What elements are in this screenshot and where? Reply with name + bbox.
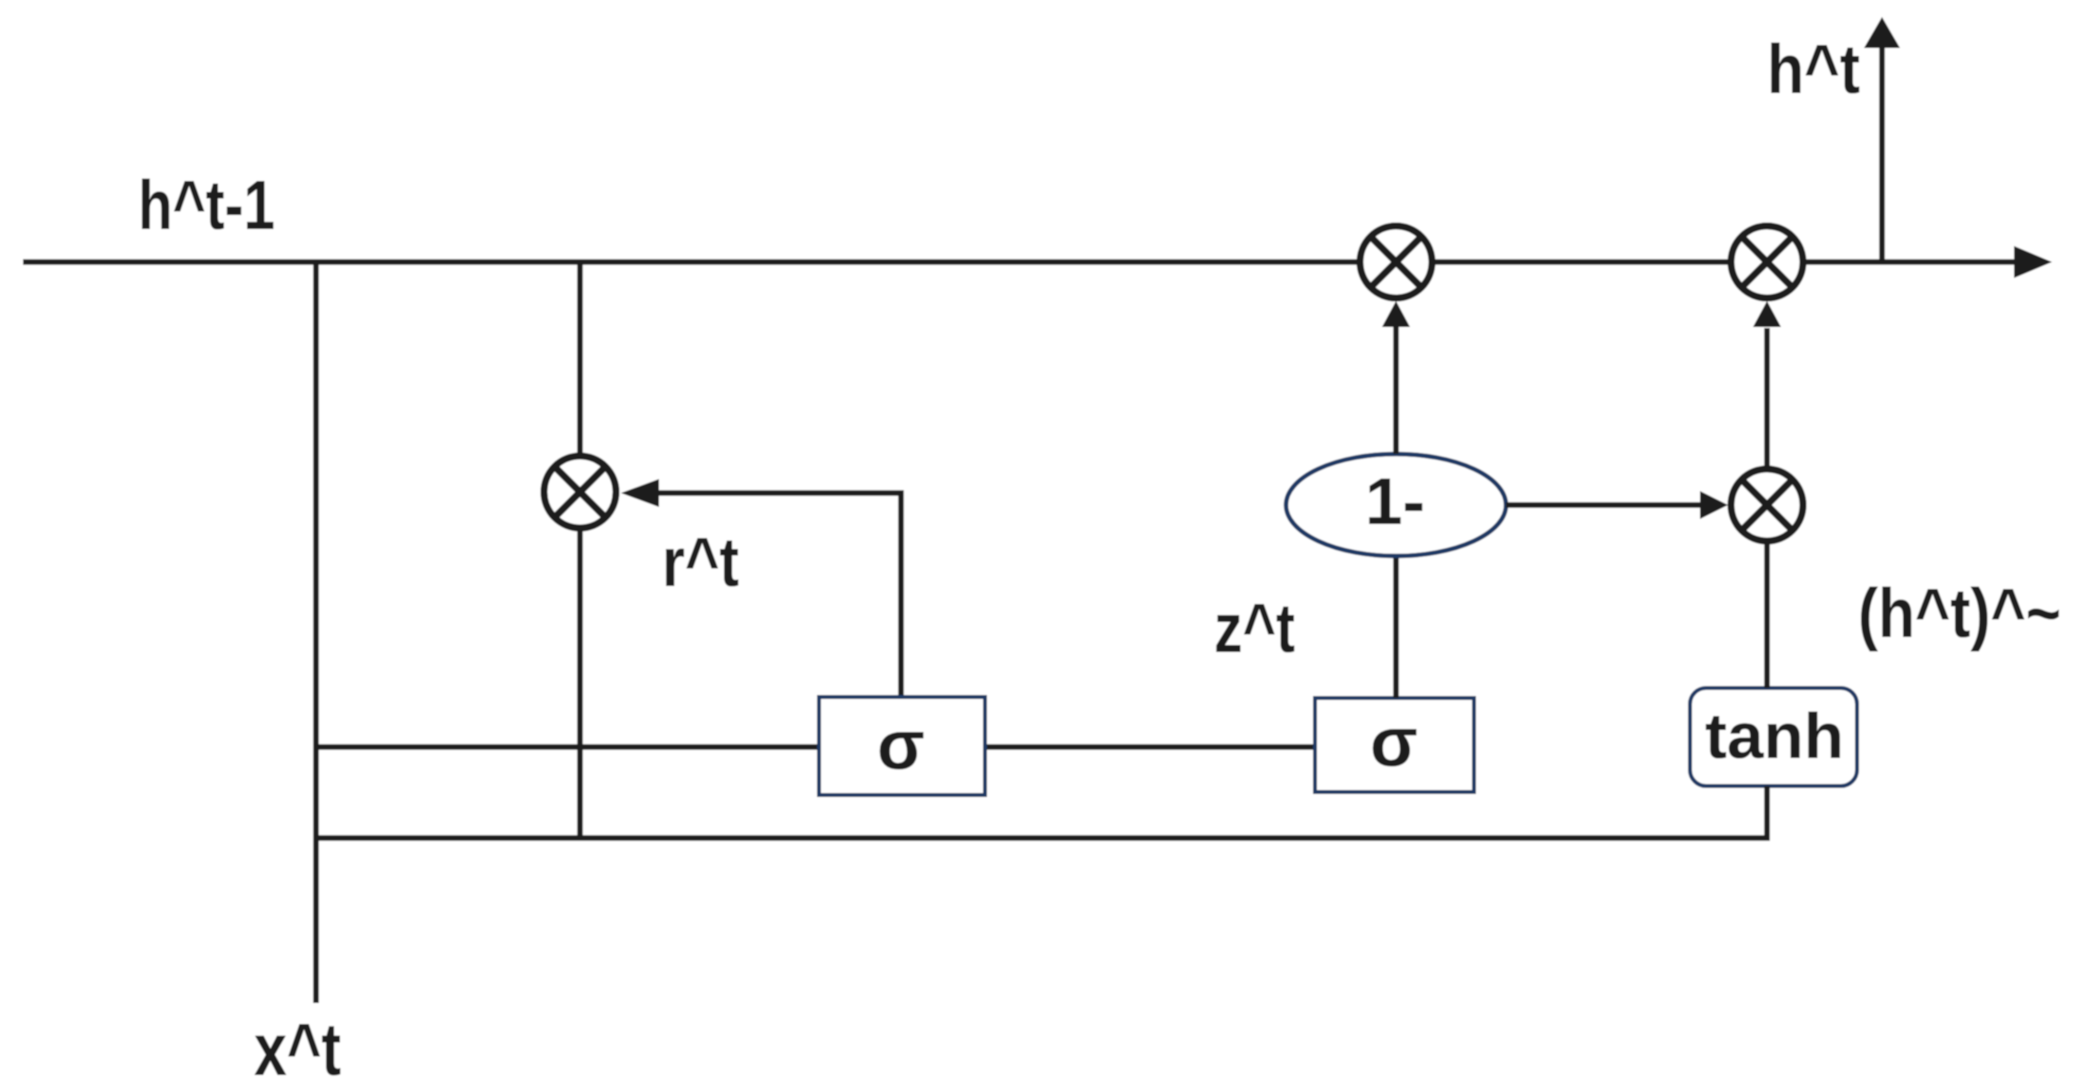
svg-text:1-: 1- bbox=[1365, 464, 1425, 538]
tanh gate U3 bbox=[1690, 688, 1857, 786]
wire: 1- ellipse right to candidate multiplier bbox=[1506, 502, 1703, 508]
sigma gate U2 bbox=[1315, 698, 1474, 792]
multiply node (update gate on h line) bbox=[1360, 226, 1432, 298]
wire: 1- ellipse up to update multiplier bbox=[1393, 325, 1399, 454]
wire: h^t output vertical arrow bbox=[1879, 45, 1885, 262]
arrowhead: into candidate multiplier bbox=[1700, 491, 1728, 519]
wire: input bus to sigma gates bbox=[316, 744, 819, 750]
arrowhead: into update multiplier bbox=[1382, 301, 1410, 327]
svg-text:σ: σ bbox=[1370, 703, 1418, 781]
wire: tanh up to candidate multiplier bbox=[1764, 544, 1770, 688]
wire: h^t-1 branch down to reset multiplier bbox=[577, 262, 583, 838]
arrowhead: into reset multiplier bbox=[621, 479, 659, 507]
wire: candidate multiplier up to final multiplier bbox=[1764, 328, 1770, 466]
arrowhead: into final multiplier bbox=[1753, 301, 1781, 327]
svg-text:h^t-1: h^t-1 bbox=[138, 166, 275, 244]
sigma gate U1 bbox=[819, 697, 985, 795]
svg-text:(h^t)^~: (h^t)^~ bbox=[1858, 574, 2061, 652]
svg-text:h^t: h^t bbox=[1767, 30, 1860, 108]
one-minus ellipse bbox=[1286, 454, 1506, 556]
wire: r^t output from sigma U1 to reset multiplier bbox=[650, 493, 901, 697]
svg-text:σ: σ bbox=[877, 706, 925, 784]
wire: main horizontal h-state line bbox=[23, 259, 2018, 265]
wire: sigma U2 up to 1- ellipse bbox=[1393, 556, 1399, 698]
multiply node (final combine on h line) bbox=[1731, 226, 1803, 298]
svg-text:tanh: tanh bbox=[1705, 700, 1844, 772]
multiply node (candidate combine) bbox=[1731, 469, 1803, 541]
arrowhead: h^t output bbox=[1864, 17, 1900, 48]
wire: between sigma U1 and sigma U2 bbox=[985, 744, 1315, 750]
multiply node (reset gate) bbox=[544, 456, 616, 528]
svg-text:x^t: x^t bbox=[254, 1008, 341, 1086]
wire: x^t input vertical line bbox=[313, 262, 319, 1003]
arrowhead: output of h-state line (right) bbox=[2014, 246, 2052, 278]
svg-text:z^t: z^t bbox=[1214, 589, 1295, 667]
wire: lower input bus to tanh bbox=[316, 786, 1767, 838]
svg-text:r^t: r^t bbox=[662, 523, 739, 601]
